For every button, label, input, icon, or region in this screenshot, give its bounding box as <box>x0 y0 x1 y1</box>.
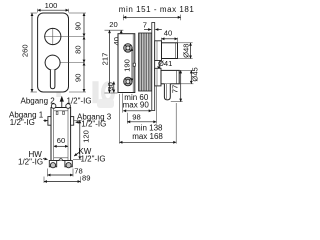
dim min60-max90 line <box>123 110 151 112</box>
lever handle front <box>50 70 55 89</box>
dim 30 line <box>113 82 115 93</box>
knob 1 circle <box>45 28 61 44</box>
svg-text:Ø41: Ø41 <box>158 59 172 68</box>
watermark bar <box>56 74 61 97</box>
svg-text:1/2"-IG: 1/2"-IG <box>67 97 92 106</box>
svg-text:77: 77 <box>171 85 180 93</box>
dim min138 ext lines <box>119 94 121 144</box>
svg-text:90: 90 <box>74 74 83 82</box>
svg-text:30: 30 <box>106 82 115 90</box>
dim 89 line <box>44 181 81 183</box>
dim 98 ext lines <box>126 113 128 124</box>
screw bottom <box>124 77 133 86</box>
plan bottom notch <box>59 159 63 161</box>
side body front line <box>132 34 134 93</box>
watermark letter I <box>92 81 98 103</box>
svg-text:20: 20 <box>109 20 117 29</box>
svg-text:7: 7 <box>143 21 147 30</box>
dim 40 left line <box>120 30 122 48</box>
dim min138-max168 line <box>120 141 177 143</box>
front view: cover plate <box>38 13 69 92</box>
dim 80 segment <box>83 37 85 63</box>
dim 89 extension lines <box>43 177 45 184</box>
plan bottom port circle HW <box>50 163 55 168</box>
plan right port boss Abgang 3 <box>71 117 74 126</box>
watermark blob <box>97 99 114 108</box>
side top dim line <box>123 16 180 18</box>
dim Ø45 line <box>190 70 192 83</box>
wall hatch block <box>139 33 152 91</box>
svg-text:1/2"-IG: 1/2"-IG <box>18 158 43 167</box>
finished wall strip <box>152 23 155 111</box>
dim 40 right line <box>162 38 178 40</box>
dim 120 extension lines <box>74 119 82 121</box>
dim 190 line <box>131 48 133 82</box>
plan view body <box>51 108 71 161</box>
svg-text:max 168: max 168 <box>132 132 163 141</box>
dim 7 arrows <box>144 29 151 31</box>
dim 90 bottom segment <box>83 63 85 92</box>
dim 20 tick line <box>105 29 124 31</box>
plan bottom port circle KW <box>66 163 71 168</box>
Ø41 sleeve <box>155 61 160 71</box>
dim Ø48 line <box>190 43 192 59</box>
svg-text:90: 90 <box>74 22 83 30</box>
knob 1 crosshair <box>44 36 84 38</box>
plan screw marks <box>56 111 58 114</box>
svg-text:Abgang 2: Abgang 2 <box>21 97 56 106</box>
side view body <box>118 34 135 93</box>
knob 2 circle <box>45 55 60 70</box>
svg-text:1/2"-IG: 1/2"-IG <box>81 120 106 129</box>
dim 90 top segment <box>83 13 85 37</box>
svg-text:89: 89 <box>82 173 90 182</box>
dim 260 extension lines <box>31 12 37 14</box>
svg-text:80: 80 <box>74 45 83 53</box>
svg-text:100: 100 <box>45 1 58 10</box>
lever knob side <box>161 70 179 83</box>
dim 77 line <box>180 70 182 101</box>
escutcheon 1 <box>155 41 162 61</box>
screw top <box>124 44 133 53</box>
plan body inner top line <box>54 110 68 112</box>
watermark letter O <box>101 81 115 103</box>
dim 100 line <box>38 9 69 11</box>
plan body inner lines <box>53 108 55 161</box>
escutcheon 2 <box>155 68 161 86</box>
KW arrow <box>74 152 79 156</box>
side top dim ticks <box>122 15 124 21</box>
svg-text:217: 217 <box>100 53 109 66</box>
plan left port boss Abgang 1 <box>48 117 51 126</box>
body front clip tab <box>133 63 135 66</box>
lever handle side <box>164 84 170 100</box>
plan top port circles <box>51 104 56 109</box>
svg-text:60: 60 <box>57 136 65 145</box>
svg-text:98: 98 <box>132 113 140 122</box>
HW arrow <box>43 158 48 161</box>
svg-text:120: 120 <box>82 130 91 143</box>
dim 100 extension lines <box>37 9 39 13</box>
svg-text:Ø45: Ø45 <box>191 67 200 81</box>
Abgang 1 arrow <box>44 120 48 122</box>
dim 98 line <box>127 121 156 123</box>
dim Ø45 ext lines <box>180 69 194 71</box>
dim 78 extension lines <box>47 169 49 177</box>
dim min60 ext line <box>122 94 124 113</box>
svg-text:1/2"-IG: 1/2"-IG <box>10 118 35 127</box>
knob 2 crosshair <box>45 62 84 64</box>
Abgang 3 arrow <box>76 121 80 123</box>
svg-text:max 90: max 90 <box>123 101 150 110</box>
plan body inner bottom line <box>54 157 68 159</box>
svg-text:min 151 - max 181: min 151 - max 181 <box>119 5 195 14</box>
Abgang 2 arrow <box>60 96 64 102</box>
svg-text:Ø48: Ø48 <box>182 44 191 58</box>
dim 60 <box>54 145 68 147</box>
plan bottom tab KW <box>65 161 72 167</box>
svg-text:260: 260 <box>20 44 29 57</box>
dim 120 line <box>79 120 81 159</box>
dim 77 bottom ext <box>171 101 183 103</box>
Ø41 arrow <box>158 67 160 70</box>
dim 260 line <box>31 13 33 92</box>
svg-text:40: 40 <box>164 29 172 38</box>
dim 40 right ticks <box>161 38 163 43</box>
dim Ø48 ext lines <box>178 42 193 44</box>
plan bottom tab HW <box>49 161 56 167</box>
dim 78 line <box>48 174 74 176</box>
thermostat knob side <box>162 43 178 59</box>
svg-text:1/2"-IG: 1/2"-IG <box>81 155 106 164</box>
svg-text:190: 190 <box>122 59 131 72</box>
right chain dim extension lines <box>69 12 86 14</box>
dim 217 bottom ext line <box>105 92 118 94</box>
dim 217 line <box>109 30 111 93</box>
